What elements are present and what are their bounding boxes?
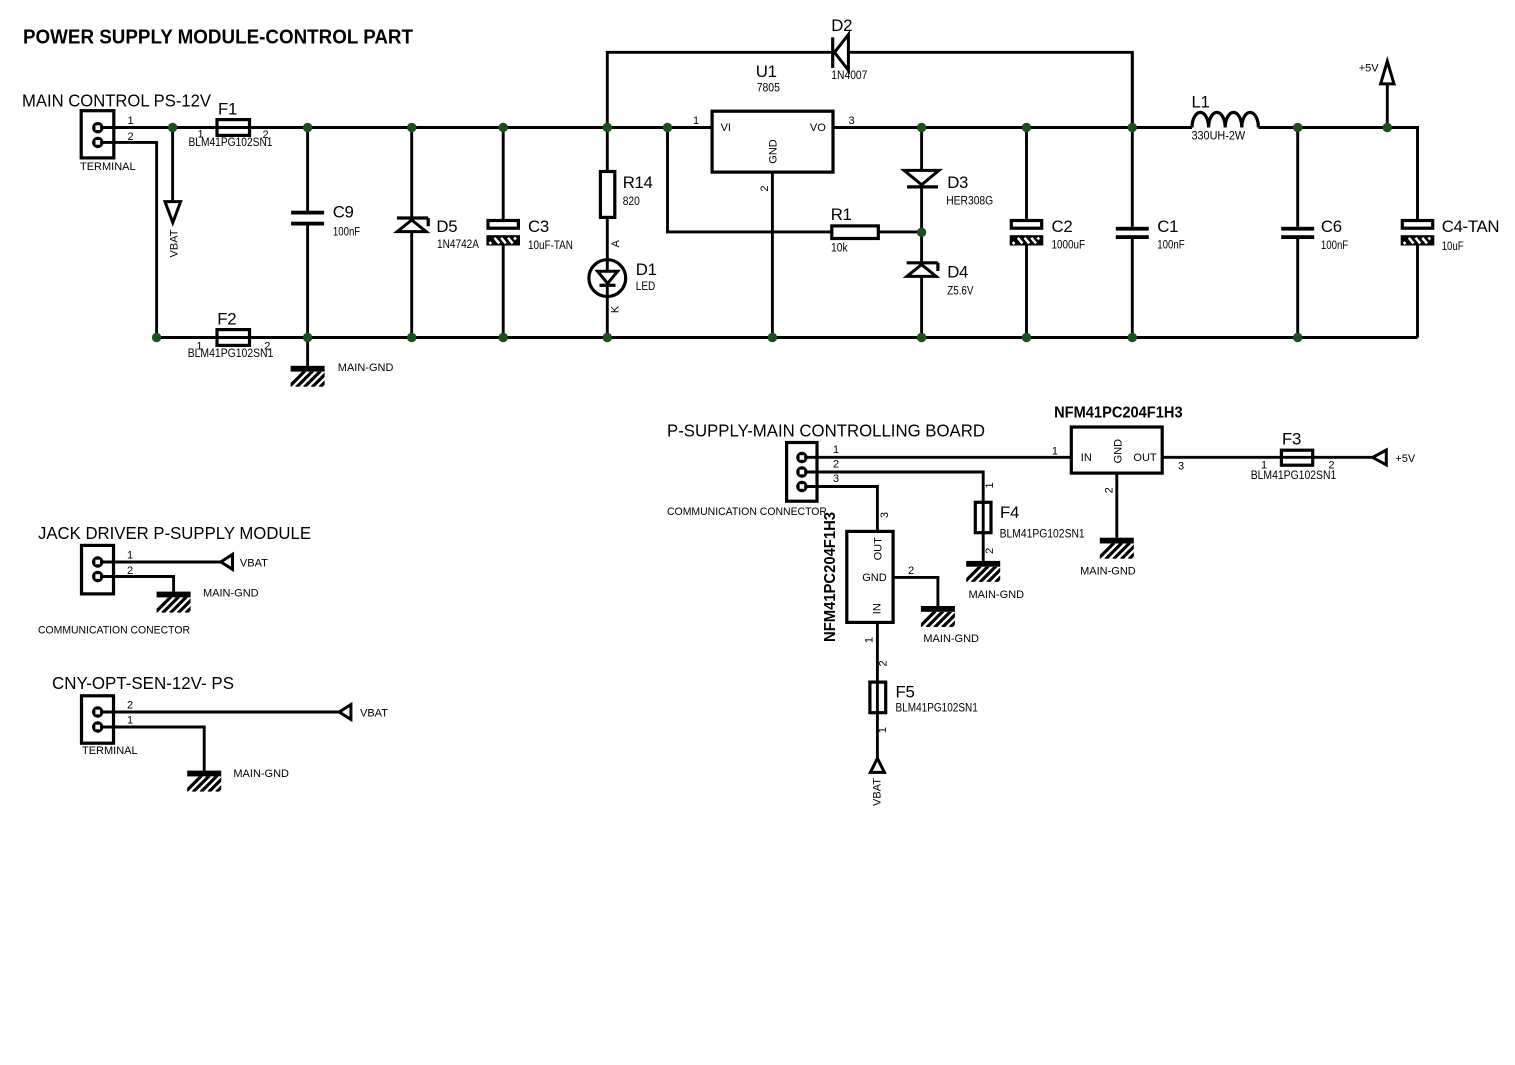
svg-text:1: 1 — [1052, 446, 1058, 458]
resistor R1 — [832, 226, 922, 239]
svg-text:A: A — [610, 239, 622, 247]
svg-text:R1: R1 — [831, 205, 852, 224]
svg-text:2: 2 — [128, 131, 134, 143]
svg-text:10k: 10k — [831, 242, 848, 254]
svg-text:3: 3 — [833, 473, 839, 485]
svg-text:1: 1 — [127, 715, 133, 727]
zener diode D4 — [907, 232, 938, 337]
svg-text:TERMINAL: TERMINAL — [80, 161, 136, 173]
resistor R14 — [600, 128, 614, 218]
junction dots top rail — [168, 123, 1392, 132]
svg-text:Z5.6V: Z5.6V — [947, 285, 974, 297]
svg-text:C4-TAN: C4-TAN — [1442, 217, 1500, 236]
svg-text:VBAT: VBAT — [240, 558, 268, 570]
svg-text:C6: C6 — [1321, 217, 1342, 236]
svg-text:U1: U1 — [756, 62, 777, 81]
svg-text:VO: VO — [810, 122, 826, 134]
net VBAT arrow cny — [102, 705, 351, 720]
svg-text:BLM41PG102SN1: BLM41PG102SN1 — [189, 137, 273, 149]
svg-text:C1: C1 — [1157, 217, 1178, 236]
svg-text:COMMUNICATION CONNECTOR: COMMUNICATION CONNECTOR — [667, 506, 827, 518]
svg-text:F4: F4 — [1000, 503, 1019, 522]
svg-text:NFM41PC204F1H3: NFM41PC204F1H3 — [822, 512, 839, 642]
svg-text:2: 2 — [833, 459, 839, 471]
svg-text:+5V: +5V — [1395, 453, 1416, 465]
wire VI tap node to R1 — [668, 128, 832, 232]
svg-text:1: 1 — [128, 115, 134, 127]
connector cny — [82, 696, 114, 743]
svg-text:MAIN-GND: MAIN-GND — [338, 362, 394, 374]
svg-text:GND: GND — [768, 139, 780, 164]
svg-text:VBAT: VBAT — [360, 708, 388, 720]
svg-text:VBAT: VBAT — [168, 229, 180, 257]
wire pin2 to F4 — [806, 472, 983, 561]
LED D1 — [589, 217, 626, 337]
svg-text:F2: F2 — [217, 310, 236, 329]
capacitor C2 electrolytic — [1010, 128, 1044, 338]
svg-text:LED: LED — [636, 281, 655, 293]
ground main-gnd at F2 — [289, 338, 337, 388]
svg-text:NFM41PC204F1H3: NFM41PC204F1H3 — [1054, 405, 1183, 422]
svg-text:1000uF: 1000uF — [1052, 240, 1086, 252]
svg-text:C3: C3 — [528, 217, 549, 236]
net VBAT arrow jack — [102, 554, 233, 569]
net VBAT arrow — [165, 128, 181, 223]
svg-text:OUT: OUT — [1133, 452, 1157, 464]
filter NFM41PC204F1H3 vertical — [847, 531, 893, 622]
svg-text:C2: C2 — [1052, 217, 1073, 236]
fuse F4 — [975, 502, 991, 532]
wire NFM GND pin down — [1115, 473, 1118, 538]
net +5V arrow top — [1381, 61, 1394, 127]
svg-text:1N4742A: 1N4742A — [437, 239, 479, 251]
svg-text:MAIN-GND: MAIN-GND — [1080, 566, 1136, 578]
svg-text:2: 2 — [908, 565, 914, 577]
svg-text:F3: F3 — [1282, 430, 1301, 449]
svg-text:1: 1 — [877, 727, 889, 733]
svg-text:IN: IN — [872, 603, 884, 614]
svg-text:VI: VI — [721, 122, 731, 134]
svg-text:BLM41PG102SN1: BLM41PG102SN1 — [188, 348, 274, 360]
wire NFM OUT to F3 — [1162, 456, 1372, 459]
svg-text:JACK DRIVER P-SUPPLY MODULE: JACK DRIVER P-SUPPLY MODULE — [38, 523, 311, 543]
regulator U1 — [712, 111, 833, 172]
wire top rail far right with corner to C4 — [1258, 128, 1417, 220]
diode D2 — [833, 35, 849, 71]
svg-text:D1: D1 — [636, 260, 657, 279]
inductor L1 — [1192, 112, 1258, 127]
wire top rail left — [98, 126, 712, 129]
wire NFM IN pin down to F5 — [876, 622, 879, 758]
wire pin3 to NFM OUT — [806, 487, 877, 532]
net VBAT arrow bottom — [870, 758, 884, 772]
svg-text:1N4007: 1N4007 — [831, 70, 867, 82]
junction dot R1 to D3 D4 node — [917, 228, 926, 237]
fuse F2 — [217, 330, 250, 346]
svg-text:BLM41PG102SN1: BLM41PG102SN1 — [896, 703, 978, 715]
svg-text:F1: F1 — [218, 100, 237, 119]
svg-text:MAIN-GND: MAIN-GND — [233, 768, 289, 780]
ground main-gnd at F4 — [964, 561, 1012, 583]
svg-text:TERMINAL: TERMINAL — [82, 745, 138, 757]
wire bottom rail left — [98, 142, 1418, 337]
svg-text:1: 1 — [864, 637, 876, 643]
svg-text:P-SUPPLY-MAIN CONTROLLING BOAR: P-SUPPLY-MAIN CONTROLLING BOARD — [667, 421, 985, 441]
svg-text:10uF: 10uF — [1442, 241, 1464, 253]
svg-text:F5: F5 — [896, 683, 915, 702]
svg-text:2: 2 — [759, 185, 771, 191]
capacitor C1 — [1116, 52, 1149, 337]
svg-text:1: 1 — [984, 482, 996, 488]
svg-text:C9: C9 — [333, 203, 354, 222]
zener diode D5 — [397, 128, 428, 338]
svg-text:HER308G: HER308G — [946, 196, 993, 208]
wire pin1 to NFM IN — [806, 456, 1071, 459]
diode D3 — [904, 128, 939, 233]
svg-text:820: 820 — [623, 196, 640, 208]
svg-text:7805: 7805 — [757, 83, 780, 95]
fuse F1 — [217, 120, 250, 136]
svg-text:POWER SUPPLY MODULE-CONTROL PA: POWER SUPPLY MODULE-CONTROL PART — [23, 26, 413, 49]
svg-text:D4: D4 — [947, 262, 968, 281]
ground main-gnd jack — [102, 577, 202, 614]
svg-text:BLM41PG102SN1: BLM41PG102SN1 — [1251, 470, 1337, 482]
fuse F5 — [870, 682, 886, 713]
svg-text:3: 3 — [879, 512, 891, 518]
capacitor C6 — [1281, 128, 1314, 338]
svg-text:1: 1 — [693, 115, 699, 127]
terminal connector J1 — [81, 111, 114, 158]
connector communication — [787, 443, 817, 502]
svg-text:GND: GND — [862, 572, 887, 584]
svg-text:VBAT: VBAT — [872, 778, 884, 806]
filter NFM41PC204F1H3 horizontal — [1071, 427, 1162, 473]
svg-text:100nF: 100nF — [1157, 240, 1184, 252]
svg-text:2: 2 — [1104, 487, 1116, 493]
svg-text:10uF-TAN: 10uF-TAN — [528, 240, 573, 252]
wire D2 top link — [607, 52, 1132, 127]
capacitor C3 tantalum — [486, 128, 520, 338]
svg-text:IN: IN — [1081, 452, 1092, 464]
wire NFM GND pin to gnd — [893, 577, 938, 606]
svg-text:2: 2 — [127, 700, 133, 712]
ground main-gnd mid — [919, 606, 967, 628]
svg-text:330UH-2W: 330UH-2W — [1192, 131, 1246, 143]
svg-text:+5V: +5V — [1359, 63, 1380, 75]
svg-text:D3: D3 — [947, 173, 968, 192]
fuse F3 — [1281, 450, 1312, 465]
svg-text:MAIN-GND: MAIN-GND — [923, 633, 979, 645]
svg-text:L1: L1 — [1192, 93, 1210, 112]
capacitor C9 — [291, 128, 324, 338]
svg-text:GND: GND — [1113, 439, 1125, 464]
capacitor C4 tantalum — [1401, 221, 1435, 338]
svg-text:MAIN CONTROL PS-12V: MAIN CONTROL PS-12V — [22, 91, 211, 111]
svg-text:CNY-OPT-SEN-12V- PS: CNY-OPT-SEN-12V- PS — [52, 673, 234, 693]
svg-text:100nF: 100nF — [333, 226, 360, 238]
svg-text:1: 1 — [127, 550, 133, 562]
svg-text:COMMUNICATION CONECTOR: COMMUNICATION CONECTOR — [38, 625, 190, 637]
svg-text:D2: D2 — [831, 16, 852, 35]
svg-text:MAIN-GND: MAIN-GND — [969, 589, 1025, 601]
svg-text:2: 2 — [878, 660, 890, 666]
svg-text:1: 1 — [833, 444, 839, 456]
svg-text:OUT: OUT — [873, 537, 885, 561]
svg-text:D5: D5 — [436, 217, 457, 236]
svg-text:K: K — [610, 305, 622, 313]
connector jack — [82, 545, 114, 594]
ground main-gnd cny — [102, 727, 233, 792]
svg-text:3: 3 — [1178, 461, 1184, 473]
junction dots bottom rail — [152, 333, 1303, 342]
ground main-gnd at NFM — [1098, 538, 1146, 560]
svg-text:BLM41PG102SN1: BLM41PG102SN1 — [1000, 529, 1085, 541]
wire U1 GND pin to bottom rail — [771, 172, 774, 337]
svg-text:MAIN-GND: MAIN-GND — [203, 588, 259, 600]
svg-text:3: 3 — [849, 115, 855, 127]
svg-text:2: 2 — [984, 548, 996, 554]
wire top rail right — [833, 126, 1192, 129]
svg-text:R14: R14 — [623, 173, 653, 192]
net +5V arrow right — [1373, 450, 1387, 465]
svg-text:100nF: 100nF — [1321, 240, 1348, 252]
